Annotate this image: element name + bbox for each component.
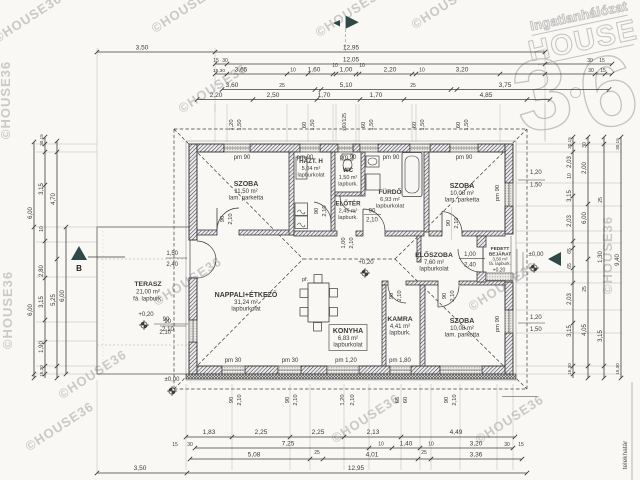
- svg-text:2,25: 2,25: [255, 429, 268, 436]
- svg-text:3,20: 3,20: [470, 441, 483, 448]
- svg-text:5,10: 5,10: [340, 82, 353, 89]
- svg-text:15: 15: [600, 68, 606, 74]
- svg-text:KONYHA: KONYHA: [333, 328, 363, 335]
- svg-text:15,30: 15,30: [213, 68, 225, 74]
- svg-text:10: 10: [378, 442, 384, 448]
- svg-text:lam. parketta: lam. parketta: [229, 196, 264, 202]
- svg-text:12,05: 12,05: [343, 57, 360, 64]
- svg-text:pm 90: pm 90: [383, 155, 400, 161]
- svg-text:5,25: 5,25: [51, 294, 57, 306]
- svg-text:15: 15: [213, 58, 219, 64]
- svg-text:1,20: 1,20: [229, 119, 235, 130]
- svg-text:10: 10: [332, 63, 338, 69]
- svg-text:65: 65: [567, 248, 573, 254]
- svg-text:pm 30: pm 30: [225, 358, 242, 364]
- svg-text:6,83 m²: 6,83 m²: [338, 336, 358, 342]
- svg-text:15,30: 15,30: [567, 363, 572, 375]
- svg-text:11,50 m²: 11,50 m²: [234, 189, 257, 195]
- svg-text:fá. lapburk.: fá. lapburk.: [489, 261, 511, 266]
- svg-text:25: 25: [598, 197, 604, 203]
- svg-text:6,00: 6,00: [60, 290, 66, 302]
- svg-text:lapburkolat: lapburkolat: [333, 343, 363, 349]
- svg-text:90: 90: [442, 293, 448, 299]
- svg-text:6,93 m²: 6,93 m²: [380, 197, 400, 203]
- svg-text:4,70: 4,70: [51, 193, 57, 205]
- svg-text:9,40: 9,40: [615, 254, 621, 266]
- svg-text:1,50: 1,50: [310, 119, 316, 130]
- svg-text:30: 30: [582, 142, 588, 148]
- svg-text:5,04 m²: 5,04 m²: [302, 166, 321, 172]
- svg-text:30,15: 30,15: [615, 138, 620, 150]
- svg-text:1,20: 1,20: [530, 315, 542, 321]
- svg-text:1,20: 1,20: [530, 170, 542, 176]
- svg-text:30: 30: [222, 58, 228, 64]
- svg-text:1,50: 1,50: [369, 119, 375, 130]
- svg-text:65: 65: [567, 263, 573, 269]
- svg-text:2,10: 2,10: [293, 394, 299, 405]
- svg-text:2,03: 2,03: [567, 215, 573, 227]
- svg-text:lapburkolat: lapburkolat: [419, 267, 449, 273]
- svg-text:1,50 m²: 1,50 m²: [339, 175, 358, 181]
- svg-text:2,45 m²: 2,45 m²: [339, 209, 358, 215]
- svg-text:2,50: 2,50: [267, 92, 280, 99]
- svg-text:TERASZ: TERASZ: [134, 281, 161, 288]
- svg-text:SZOBA: SZOBA: [450, 318, 475, 325]
- svg-text:±0,00: ±0,00: [165, 377, 181, 383]
- svg-text:+0,20: +0,20: [138, 312, 154, 318]
- svg-text:10: 10: [419, 68, 425, 74]
- svg-text:4,05: 4,05: [582, 324, 588, 336]
- svg-text:60: 60: [302, 122, 308, 128]
- svg-text:15: 15: [172, 442, 178, 448]
- svg-text:3,75: 3,75: [499, 82, 512, 89]
- svg-text:1,70: 1,70: [370, 92, 383, 99]
- svg-text:1,50: 1,50: [166, 251, 178, 257]
- svg-text:1,00: 1,00: [464, 252, 476, 258]
- svg-text:2,20: 2,20: [210, 92, 223, 99]
- svg-text:2,10: 2,10: [349, 237, 355, 248]
- svg-text:60: 60: [361, 122, 367, 128]
- svg-text:1,70: 1,70: [318, 92, 331, 99]
- svg-text:1,40: 1,40: [400, 441, 413, 448]
- svg-text:30: 30: [587, 58, 593, 64]
- svg-text:25: 25: [582, 286, 588, 292]
- svg-text:60: 60: [403, 397, 409, 403]
- svg-text:ELŐTÉR: ELŐTÉR: [335, 200, 361, 208]
- svg-text:2,10: 2,10: [228, 213, 234, 224]
- svg-text:±0,00: ±0,00: [529, 252, 545, 258]
- svg-text:10,08 m²: 10,08 m²: [450, 326, 474, 332]
- svg-text:2,10: 2,10: [237, 394, 243, 405]
- svg-text:2,80: 2,80: [39, 265, 45, 277]
- svg-text:6,00: 6,00: [582, 212, 588, 224]
- svg-text:90: 90: [220, 216, 226, 222]
- svg-text:10: 10: [428, 442, 434, 448]
- svg-text:lam. parketta: lam. parketta: [445, 333, 480, 339]
- svg-text:21,00 m²: 21,00 m²: [136, 290, 160, 296]
- svg-text:2,40: 2,40: [464, 263, 476, 269]
- svg-text:1,50: 1,50: [464, 119, 470, 130]
- svg-text:©HOUSE36: ©HOUSE36: [0, 61, 13, 139]
- svg-text:3,50: 3,50: [136, 45, 149, 52]
- svg-text:65: 65: [395, 397, 401, 403]
- svg-text:+0,20: +0,20: [358, 260, 374, 266]
- svg-text:1,90: 1,90: [39, 341, 45, 353]
- svg-text:3,60: 3,60: [226, 82, 239, 89]
- svg-text:1,83: 1,83: [203, 429, 216, 436]
- svg-text:lapburk.: lapburk.: [389, 331, 411, 337]
- svg-text:telekhatár: telekhatár: [622, 440, 629, 469]
- svg-text:1,50: 1,50: [530, 183, 542, 189]
- svg-text:x60/125: x60/125: [342, 113, 348, 131]
- svg-text:2,10: 2,10: [454, 217, 460, 228]
- svg-text:WC: WC: [343, 167, 354, 174]
- svg-text:2,10: 2,10: [452, 394, 458, 405]
- svg-text:4,01: 4,01: [366, 452, 379, 459]
- svg-text:2,10: 2,10: [450, 290, 456, 301]
- svg-text:pm 90: pm 90: [495, 185, 501, 201]
- svg-text:60: 60: [456, 122, 462, 128]
- svg-text:FÜRDŐ: FÜRDŐ: [378, 187, 401, 196]
- svg-text:5,08: 5,08: [248, 452, 261, 459]
- svg-text:lapburkolat: lapburkolat: [298, 173, 325, 179]
- svg-text:1,30: 1,30: [598, 251, 604, 263]
- svg-text:lam. parketta: lam. parketta: [445, 198, 480, 204]
- svg-text:lapburkolat: lapburkolat: [231, 307, 261, 313]
- svg-text:3,15: 3,15: [567, 325, 573, 337]
- svg-text:2,20: 2,20: [384, 67, 397, 74]
- svg-text:4,41 m²: 4,41 m²: [390, 324, 410, 330]
- svg-text:pm 1,20: pm 1,20: [335, 358, 357, 364]
- svg-text:2,10: 2,10: [366, 218, 378, 224]
- svg-text:12,95: 12,95: [343, 45, 360, 52]
- svg-text:7,25: 7,25: [282, 441, 295, 448]
- svg-text:SZOBA: SZOBA: [234, 181, 259, 188]
- svg-text:B: B: [76, 264, 82, 273]
- svg-text:2,00: 2,00: [582, 162, 588, 174]
- svg-text:3,50: 3,50: [134, 465, 147, 472]
- svg-text:3,36: 3,36: [470, 452, 483, 459]
- svg-text:25: 25: [314, 450, 320, 456]
- svg-text:15: 15: [518, 442, 524, 448]
- svg-text:2,40: 2,40: [166, 262, 178, 268]
- svg-text:1,60: 1,60: [308, 67, 321, 74]
- svg-text:3,20: 3,20: [456, 67, 469, 74]
- svg-text:15,30: 15,30: [39, 365, 44, 377]
- svg-text:1,50: 1,50: [420, 119, 426, 130]
- svg-text:ELŐSZOBA: ELŐSZOBA: [415, 250, 453, 259]
- svg-text:pm 90: pm 90: [234, 155, 251, 161]
- svg-text:1,50: 1,50: [237, 119, 243, 130]
- svg-text:©HOUSE36: ©HOUSE36: [0, 271, 15, 349]
- svg-text:6,00: 6,00: [28, 304, 34, 316]
- svg-text:pm 90: pm 90: [495, 316, 501, 332]
- svg-text:25: 25: [421, 450, 427, 456]
- svg-text:90: 90: [164, 319, 171, 325]
- svg-text:2,10: 2,10: [322, 205, 328, 216]
- svg-text:90: 90: [369, 209, 376, 215]
- svg-text:10,08 m²: 10,08 m²: [450, 191, 474, 197]
- svg-text:15,30: 15,30: [615, 363, 620, 375]
- svg-text:90: 90: [446, 220, 452, 226]
- svg-text:1,20: 1,20: [340, 394, 346, 405]
- svg-text:90: 90: [389, 293, 395, 299]
- svg-text:pf.: pf.: [302, 277, 309, 283]
- svg-text:lapburkolat: lapburkolat: [376, 204, 405, 210]
- svg-text:25: 25: [410, 83, 416, 89]
- svg-text:SZOBA: SZOBA: [450, 183, 475, 190]
- svg-text:30: 30: [504, 442, 510, 448]
- svg-text:NAPPALI+ÉTKEZŐ: NAPPALI+ÉTKEZŐ: [215, 290, 278, 299]
- svg-text:3,15: 3,15: [598, 330, 604, 342]
- svg-text:pm 90: pm 90: [297, 155, 314, 161]
- svg-text:3,15: 3,15: [39, 183, 45, 195]
- svg-text:fá. lapburk.: fá. lapburk.: [133, 297, 163, 303]
- svg-text:2,25: 2,25: [312, 429, 325, 436]
- svg-text:10: 10: [39, 226, 45, 232]
- svg-text:60: 60: [412, 122, 418, 128]
- svg-text:2,10: 2,10: [159, 330, 171, 336]
- svg-text:30,15: 30,15: [39, 134, 44, 146]
- svg-text:90: 90: [314, 208, 320, 214]
- svg-text:pm 90: pm 90: [340, 155, 357, 161]
- svg-text:15: 15: [599, 58, 605, 64]
- svg-text:1,50: 1,50: [530, 327, 542, 333]
- svg-text:30,15: 30,15: [567, 137, 572, 149]
- svg-text:KAMRA: KAMRA: [387, 316, 412, 323]
- svg-text:10: 10: [567, 173, 573, 179]
- svg-text:4,85: 4,85: [480, 92, 493, 99]
- svg-text:1,00: 1,00: [340, 67, 353, 74]
- svg-text:90: 90: [444, 397, 450, 403]
- svg-text:10: 10: [359, 63, 365, 69]
- svg-text:FEDETT: FEDETT: [491, 246, 510, 252]
- svg-text:10: 10: [290, 68, 296, 74]
- svg-text:2,10: 2,10: [397, 290, 403, 301]
- svg-text:pm 90: pm 90: [456, 155, 473, 161]
- svg-text:pm 1,80: pm 1,80: [389, 358, 411, 364]
- svg-text:2,10: 2,10: [350, 394, 356, 405]
- svg-text:6,00: 6,00: [28, 207, 34, 219]
- svg-text:3,65: 3,65: [235, 67, 248, 74]
- svg-text:+0,20: +0,20: [493, 268, 506, 274]
- svg-text:4,49: 4,49: [450, 429, 463, 436]
- svg-text:12,95: 12,95: [348, 465, 365, 472]
- svg-text:31,24 m²: 31,24 m²: [234, 300, 258, 306]
- svg-text:3,15: 3,15: [567, 190, 573, 202]
- svg-text:2,03: 2,03: [567, 156, 573, 168]
- svg-text:2,03: 2,03: [567, 293, 573, 305]
- svg-text:7,60 m²: 7,60 m²: [424, 260, 444, 266]
- svg-text:25: 25: [279, 83, 285, 89]
- svg-text:2,13: 2,13: [367, 429, 380, 436]
- svg-text:30: 30: [187, 442, 193, 448]
- svg-text:1,00: 1,00: [341, 237, 347, 248]
- svg-text:30: 30: [588, 68, 594, 74]
- svg-text:lapburk.: lapburk.: [338, 182, 358, 188]
- svg-text:pm 30: pm 30: [282, 358, 299, 364]
- svg-text:lapburk.: lapburk.: [338, 215, 358, 221]
- svg-text:3,15: 3,15: [39, 296, 45, 308]
